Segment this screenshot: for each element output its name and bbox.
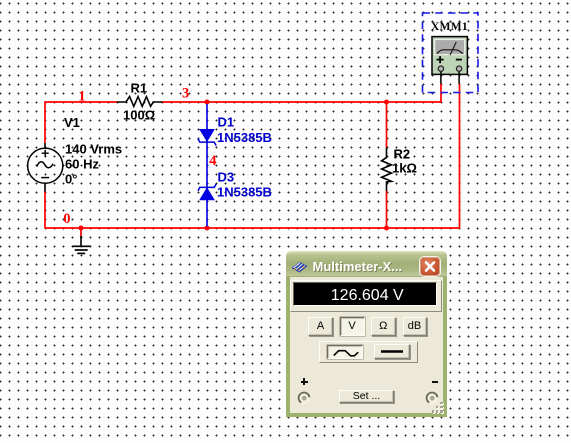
button A [308, 317, 333, 336]
measurement display 126.604 V [293, 282, 438, 306]
multimeter XMM1 icon [432, 37, 467, 84]
display raised panel [290, 280, 442, 312]
node label 0 [63, 211, 70, 227]
svg-text:4: 4 [209, 153, 216, 169]
wire V1 bottom to rail [44, 191, 46, 228]
label 60 Hz [65, 157, 99, 172]
svg-text:1: 1 [78, 89, 85, 105]
close button [420, 257, 440, 276]
ground [72, 236, 90, 253]
button dB [403, 317, 427, 336]
resistor R2 [382, 148, 392, 192]
svg-text:1N5385B: 1N5385B [217, 185, 272, 200]
label D3 [218, 170, 235, 185]
Set button [339, 390, 394, 404]
label 140 Vrms [65, 142, 122, 157]
multimeter dialog window XMM1 [286, 251, 447, 417]
svg-text:XMM1: XMM1 [431, 21, 468, 33]
svg-text:3: 3 [182, 86, 189, 102]
multimeter selection box (dashed) [423, 13, 479, 93]
wire ground stub [80, 228, 82, 237]
zener diode D1 [198, 130, 216, 146]
wire R2 branch bottom [386, 191, 388, 228]
node 3 junction dot [205, 100, 210, 105]
button V (pressed) [340, 317, 365, 336]
label D3 value 1N5385B [217, 185, 272, 200]
label R2 [394, 147, 411, 162]
label XMM1 [431, 21, 468, 33]
svg-text:R1: R1 [131, 81, 148, 96]
label 1k ohm [392, 161, 417, 176]
wire bottom rail (node0) [45, 227, 460, 229]
label 0 deg [65, 172, 77, 187]
label D1 [218, 115, 235, 130]
svg-text:140 Vrms: 140 Vrms [65, 142, 122, 157]
button DC (line) [374, 344, 411, 359]
svg-text:100Ω: 100Ω [123, 108, 155, 123]
svg-text:D3: D3 [218, 170, 235, 185]
label V1 [64, 115, 80, 130]
zener diode D3 [198, 184, 216, 200]
title bar [286, 251, 447, 277]
mode row panel [319, 341, 418, 364]
title bar icon [291, 261, 308, 273]
title text [313, 259, 403, 274]
svg-text:0°: 0° [65, 172, 77, 187]
node junction dot R2 bottom [384, 226, 389, 231]
button ohm [371, 317, 396, 336]
svg-text:1N5385B: 1N5385B [217, 130, 272, 145]
resize grip [432, 402, 444, 414]
wire top rail right segment (node3) [162, 84, 441, 103]
node junction dot ground [79, 226, 84, 231]
node junction dot R2 top [384, 100, 389, 105]
node label 4 [209, 153, 216, 169]
label R1 [131, 81, 148, 96]
label 100 ohm [123, 108, 155, 123]
svg-text:0: 0 [63, 211, 70, 227]
svg-text:V1: V1 [64, 115, 80, 130]
wire diode branch (blue) [206, 104, 208, 227]
plus terminal [297, 391, 311, 405]
node label 3 [182, 86, 189, 102]
resistor R1 [117, 97, 163, 107]
svg-text:D1: D1 [218, 115, 235, 130]
window body [290, 277, 443, 413]
label D1 value 1N5385B [217, 130, 272, 145]
svg-text:1kΩ: 1kΩ [392, 161, 417, 176]
wire multimeter minus lead [459, 84, 461, 229]
button AC (pressed, sine) [327, 345, 363, 360]
plus terminal label [301, 381, 308, 383]
svg-text:R2: R2 [394, 147, 411, 162]
window border frame [286, 273, 447, 417]
minus terminal label [432, 381, 438, 383]
node junction dot diode bottom [205, 226, 210, 231]
wire R2 branch top [386, 102, 388, 148]
svg-text:60 Hz: 60 Hz [65, 157, 99, 172]
wire top rail left segment (node1) [45, 102, 117, 143]
node label 1 [78, 89, 85, 105]
AC source V1 [28, 143, 63, 192]
minus terminal [425, 391, 439, 405]
